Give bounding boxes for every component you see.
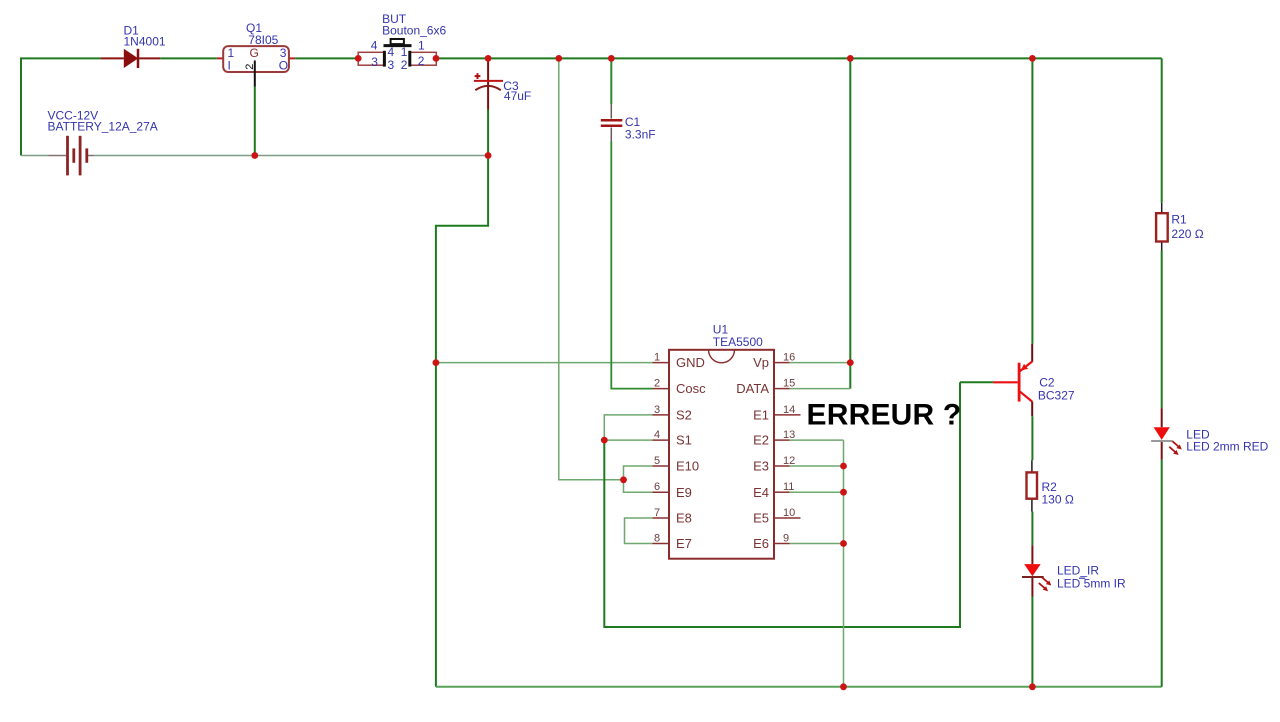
capacitor C3 47uF (474, 58, 531, 109)
svg-text:I: I (228, 59, 231, 73)
svg-text:12: 12 (783, 455, 795, 467)
svg-text:S2: S2 (676, 408, 692, 423)
junction bottom rail LED_IR (1029, 683, 1036, 690)
svg-text:2: 2 (418, 54, 425, 68)
battery VCC-12V BATTERY_12A_27A (48, 109, 158, 176)
svg-text:1N4001: 1N4001 (124, 34, 166, 48)
junction GND pin1 (433, 359, 440, 366)
junction battery row C3 (485, 152, 492, 159)
pin 2 of Q1 (G) (254, 61, 256, 87)
wire battery row right (94, 155, 489, 157)
svg-text:DATA: DATA (736, 381, 769, 396)
svg-text:3: 3 (371, 55, 378, 69)
wire R2 to LED_IR (1031, 512, 1033, 546)
junction Vp pin16 (847, 359, 854, 366)
wire E2 pin13 (790, 439, 844, 441)
pushbutton BUT Bouton_6x6 (358, 12, 446, 72)
svg-text:G: G (250, 46, 259, 60)
svg-text:15: 15 (783, 378, 795, 390)
wire C3 to battery row (487, 110, 489, 156)
junction top rail collector riser (1029, 55, 1036, 62)
svg-text:4: 4 (654, 429, 660, 441)
transistor C2 BC327 (993, 344, 1075, 417)
svg-text:E10: E10 (676, 459, 699, 474)
wire E3 pin12 (790, 465, 844, 467)
wire top rail left (21, 57, 101, 59)
LED_IR LED 5mm IR (1022, 545, 1126, 596)
svg-text:E1: E1 (753, 408, 769, 423)
svg-text:2: 2 (401, 58, 408, 72)
svg-text:LED 5mm IR: LED 5mm IR (1057, 577, 1126, 591)
junction E4 pin11 (840, 489, 847, 496)
wire R1 to LED (1161, 251, 1163, 409)
wire Vp riser (849, 58, 851, 388)
svg-text:6: 6 (654, 481, 660, 493)
svg-text:GND: GND (676, 355, 705, 370)
svg-text:R1: R1 (1171, 213, 1187, 227)
junction top rail BUT pin2 (433, 55, 440, 62)
wire Vp pin16 (790, 362, 851, 364)
svg-text:Vp: Vp (753, 355, 769, 370)
svg-text:5: 5 (654, 455, 660, 467)
wire E4 pin11 (790, 491, 844, 493)
svg-text:13: 13 (783, 429, 795, 441)
wire E-net vertical (843, 440, 845, 687)
svg-text:C2: C2 (1039, 375, 1055, 389)
wire E6 pin9 (790, 543, 844, 545)
wire S-net down to base riser (604, 382, 960, 627)
wire E8/E7 bracket (625, 518, 653, 544)
svg-text:3: 3 (388, 58, 395, 72)
junction battery row Q1 G (251, 152, 258, 159)
svg-text:8: 8 (654, 533, 660, 545)
svg-text:E5: E5 (753, 511, 769, 526)
svg-text:16: 16 (783, 352, 795, 364)
svg-text:Cosc: Cosc (676, 381, 706, 396)
resistor R2 130 (1027, 460, 1074, 511)
junction bottom rail E-net (840, 683, 847, 690)
resistor R1 220 (1156, 203, 1204, 251)
svg-text:Bouton_6x6: Bouton_6x6 (382, 23, 446, 37)
svg-text:BATTERY_12A_27A: BATTERY_12A_27A (48, 120, 158, 134)
svg-text:10: 10 (783, 507, 795, 519)
svg-text:2: 2 (654, 378, 660, 390)
junction top rail feed (555, 55, 562, 62)
svg-text:1: 1 (654, 352, 660, 364)
wire right rail bottom (1161, 460, 1163, 687)
wire Q1 to BUT (295, 57, 358, 59)
wire DATA pin15 (790, 388, 851, 390)
wire GND pin1 (436, 362, 653, 364)
svg-text:ERREUR ?: ERREUR ? (807, 399, 962, 432)
wire left drop (20, 57, 22, 155)
svg-text:4: 4 (371, 39, 378, 53)
svg-text:E7: E7 (676, 536, 692, 551)
svg-text:S1: S1 (676, 433, 692, 448)
svg-text:E3: E3 (753, 459, 769, 474)
svg-text:14: 14 (783, 404, 795, 416)
svg-text:130 Ω: 130 Ω (1042, 493, 1074, 507)
junction top rail C3 (485, 55, 492, 62)
svg-text:3.3nF: 3.3nF (625, 128, 656, 142)
junction top rail BUT pin3 (355, 55, 362, 62)
wire battery row left (21, 155, 49, 157)
wire right rail top (1161, 58, 1163, 202)
svg-text:11: 11 (783, 481, 794, 493)
wire base (960, 381, 993, 383)
wire S1 pin4 (604, 439, 652, 441)
svg-text:220 Ω: 220 Ω (1171, 227, 1203, 241)
wire D1 to Q1 (160, 57, 217, 59)
svg-text:E9: E9 (676, 485, 692, 500)
svg-text:E8: E8 (676, 511, 692, 526)
wire C1 to pin2 (611, 141, 652, 389)
junction E6 pin9 (840, 540, 847, 547)
wire S2 pin3 (604, 415, 652, 440)
IC U1 TEA5500 (653, 323, 801, 559)
regulator Q1 78I05 (217, 21, 295, 73)
svg-text:E4: E4 (753, 485, 769, 500)
svg-text:4: 4 (388, 45, 395, 59)
junction E3 pin12 (840, 463, 847, 470)
svg-text:1: 1 (401, 45, 408, 59)
wire emitter to R2 (1031, 416, 1033, 460)
wire E10/E9 bracket (624, 466, 653, 492)
svg-text:BC327: BC327 (1038, 388, 1075, 402)
wire bottom rail (436, 686, 1162, 688)
wire top rail right (436, 57, 1162, 59)
wire LED_IR to bottom rail (1031, 597, 1033, 687)
junction top rail Vp riser (847, 55, 854, 62)
svg-text:E2: E2 (753, 433, 769, 448)
svg-text:47uF: 47uF (504, 89, 531, 103)
svg-text:E6: E6 (753, 536, 769, 551)
svg-text:7: 7 (654, 507, 660, 519)
capacitor C1 3.3nF (601, 58, 656, 141)
svg-text:TEA5500: TEA5500 (713, 335, 763, 349)
junction top rail C1 (608, 55, 615, 62)
LED 2mm RED (1151, 408, 1269, 460)
svg-text:9: 9 (783, 533, 789, 545)
svg-text:O: O (279, 59, 288, 73)
svg-text:78I05: 78I05 (248, 33, 278, 47)
svg-text:3: 3 (654, 404, 660, 416)
diode D1 (101, 23, 166, 68)
junction S1 pin4 (601, 437, 608, 444)
junction E10/E9 (620, 476, 627, 483)
wire feed to E10/E9 (559, 58, 624, 479)
svg-text:LED_IR: LED_IR (1057, 564, 1099, 578)
wire Q1 G to battery row (254, 87, 256, 156)
svg-text:1: 1 (418, 39, 425, 53)
svg-text:LED 2mm RED: LED 2mm RED (1186, 439, 1268, 453)
wire C3 node down jog (436, 156, 488, 687)
wire collector riser (1031, 58, 1033, 343)
